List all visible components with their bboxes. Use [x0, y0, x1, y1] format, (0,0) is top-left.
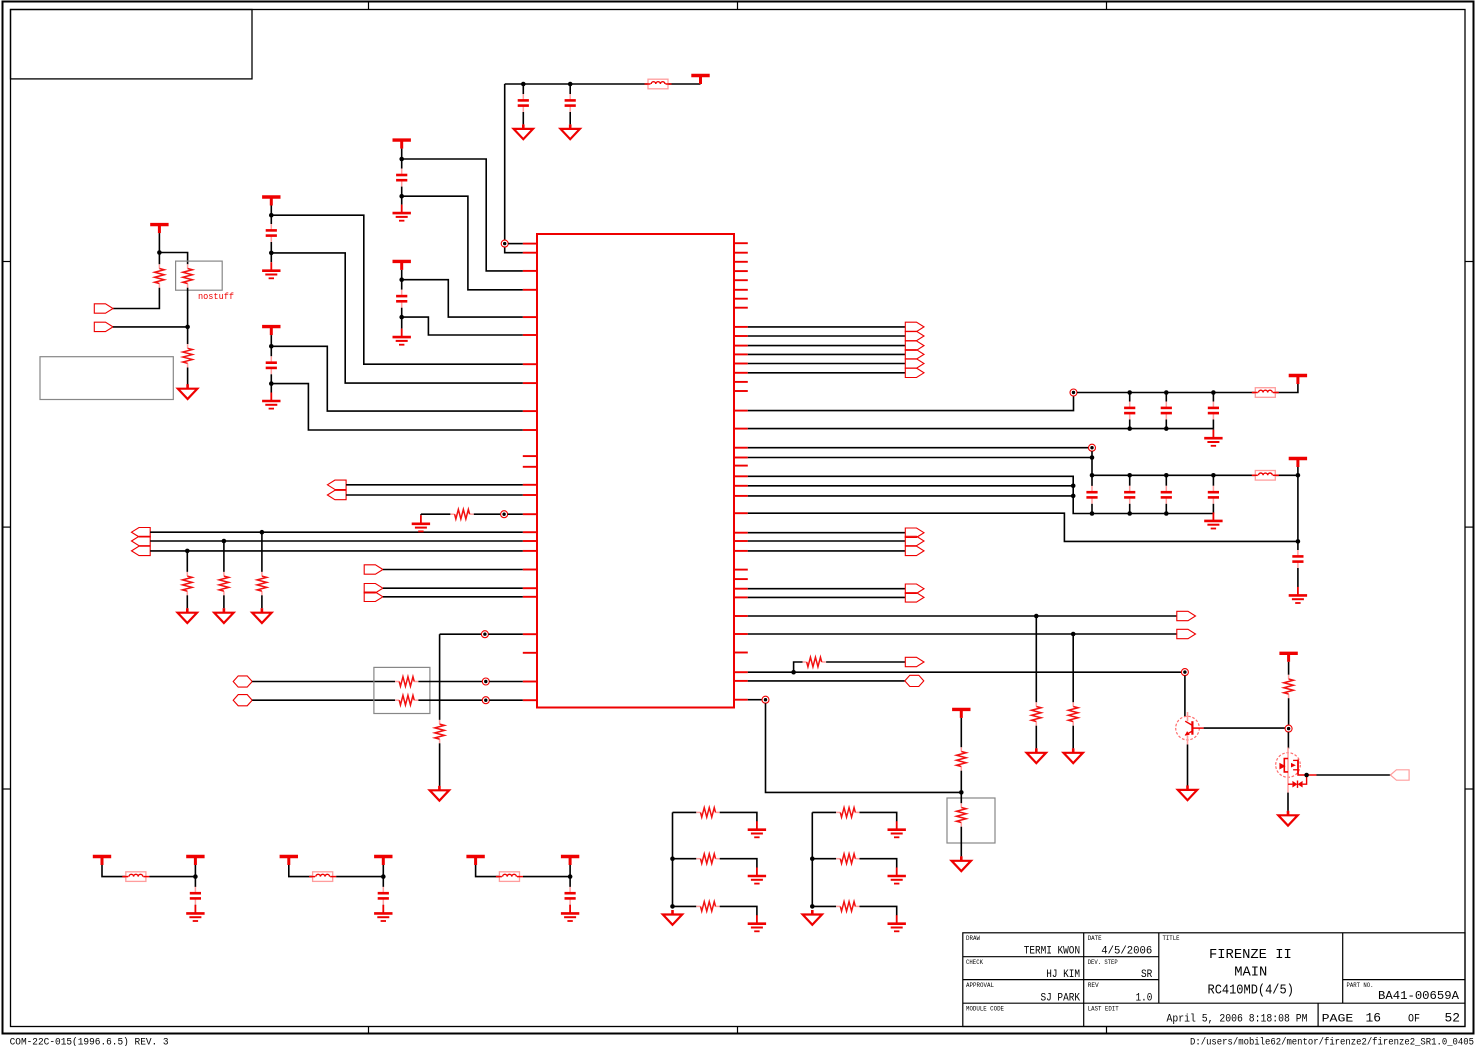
wire D stem	[270, 335, 272, 356]
wire bus1	[748, 326, 906, 328]
capacitor C17	[569, 887, 571, 893]
transistor Q2 MOSFET	[1276, 753, 1301, 778]
svg-text:BA41-00659A: BA41-00659A	[1378, 989, 1460, 1003]
Q2 source lead and body diode	[1298, 774, 1317, 776]
wire junction to R2	[159, 253, 187, 265]
svg-text:PAGE: PAGE	[1322, 1013, 1354, 1025]
wire junction2 to R3	[187, 327, 189, 344]
ground F2	[382, 905, 384, 914]
capacitor C10	[1091, 486, 1093, 492]
port hex H2	[233, 695, 252, 706]
port B2	[364, 584, 383, 593]
svg-text:DRAW: DRAW	[966, 935, 980, 942]
resistor R15	[960, 803, 962, 807]
node R8 junction	[482, 697, 489, 704]
svg-text:TITLE: TITLE	[1163, 935, 1180, 942]
wire R10 to pin	[474, 513, 501, 515]
wire F1 in	[102, 865, 126, 877]
junction dot C10 bottom	[1090, 511, 1095, 516]
wire rung R21	[812, 858, 836, 860]
wire port S588.7	[748, 588, 906, 590]
ground R10	[420, 515, 422, 524]
wire rung R19	[673, 905, 697, 907]
junction dot D1	[269, 344, 274, 349]
wire bank1 ground stem	[1212, 429, 1214, 430]
wire port B3	[383, 596, 523, 598]
wire H2 to R8	[252, 699, 395, 701]
svg-text:REV: REV	[1088, 982, 1099, 989]
node R7 junction	[482, 678, 489, 685]
wire R6 to ground	[261, 595, 263, 608]
svg-text:LAST EDIT: LAST EDIT	[1088, 1005, 1119, 1012]
wire C stem	[270, 206, 272, 225]
wire R9 to ground	[439, 743, 441, 786]
nostuff box	[176, 261, 223, 290]
ground R22	[896, 915, 898, 924]
svg-text:COM-22C-015(1996.6.5) REV. 3: COM-22C-015(1996.6.5) REV. 3	[10, 1037, 169, 1046]
frame zone ticks	[368, 2, 370, 10]
wire R10 ground branch	[420, 514, 422, 515]
wire A stem	[401, 149, 403, 169]
wire pin634 right	[748, 633, 1177, 635]
R15 gray box	[947, 798, 995, 843]
port S588.7	[905, 584, 924, 593]
resistor R19	[696, 905, 700, 907]
svg-text:HJ KIM: HJ KIM	[1046, 969, 1080, 981]
wire A2 bus	[150, 540, 523, 542]
junction dot 495	[1071, 494, 1076, 499]
wire pin457	[748, 457, 1092, 459]
wire C16 ground	[382, 904, 384, 906]
junction dot pin634	[1071, 632, 1076, 637]
capacitor C11	[1129, 475, 1131, 486]
power net D	[262, 325, 280, 328]
ground C1	[522, 124, 525, 128]
wire H1 to R7	[252, 681, 395, 683]
wire ladder vertical R17	[672, 812, 674, 906]
junction dot R15 node	[959, 790, 964, 795]
wire bus5	[748, 363, 906, 365]
port bus5	[905, 359, 924, 368]
wire pin634	[440, 633, 482, 635]
capacitor C5	[401, 290, 403, 296]
resistor R3	[187, 344, 189, 348]
junction dot F1	[193, 874, 198, 879]
resistor R18	[696, 858, 700, 860]
resistor R11	[803, 661, 807, 663]
inductor L4	[126, 872, 146, 882]
capacitor C13	[1212, 475, 1214, 486]
ground net A	[401, 205, 403, 214]
ground R15	[960, 856, 963, 861]
ground R4	[186, 608, 189, 613]
ground net D	[270, 393, 272, 402]
wire F1 out	[149, 876, 195, 878]
capacitor C12	[1165, 475, 1167, 486]
ground R19	[756, 915, 758, 924]
capacitor C9	[1212, 393, 1214, 402]
inductor L5	[313, 872, 333, 882]
port bus4	[905, 350, 924, 359]
wire B stem	[401, 270, 403, 290]
junction dot C12 bottom	[1164, 511, 1169, 516]
wire bank1 bottom rail	[748, 428, 1214, 430]
junction dot pin457	[1090, 455, 1095, 460]
junction dot power node	[1296, 539, 1301, 544]
wire R13 ground	[1072, 726, 1074, 749]
port IN2	[94, 322, 113, 331]
wire R8 to pin	[418, 699, 482, 701]
power bank2	[1289, 457, 1307, 460]
wire R11 to port	[826, 661, 905, 663]
wire F3 in	[476, 865, 500, 877]
wire Q1 base to node	[1204, 727, 1286, 729]
port bus6	[905, 368, 924, 377]
capacitor C6	[270, 356, 272, 362]
capacitor C16	[382, 887, 384, 893]
power net A	[393, 138, 411, 141]
wire node to Q2	[1287, 732, 1289, 748]
power F1 out	[186, 855, 204, 858]
wire B2 to pin	[402, 317, 523, 335]
wire bus3	[748, 345, 906, 347]
port A1	[132, 528, 151, 537]
power bank1	[1289, 374, 1307, 377]
ground F1	[194, 905, 196, 914]
svg-text:RC410MD(4/5): RC410MD(4/5)	[1208, 983, 1294, 999]
wire pin672	[748, 671, 1182, 673]
node Q1 base	[1181, 669, 1188, 676]
junction dot bank2 power	[1296, 473, 1301, 478]
wire bank2 top rail	[1092, 474, 1255, 476]
resistor R8	[395, 699, 399, 701]
junction dot C11 bottom	[1127, 511, 1132, 516]
ground ladder	[811, 910, 814, 915]
wire A1 bus	[150, 531, 523, 533]
wire R22 to ground	[860, 906, 897, 915]
port R541	[905, 536, 924, 545]
wire R12 ground	[1035, 726, 1037, 749]
junction dot ladder low	[670, 904, 675, 909]
wire pins476-496 merge	[748, 476, 1214, 513]
power VCC top	[691, 74, 709, 77]
ground R21	[896, 868, 898, 877]
wire pin448	[748, 447, 1089, 449]
ground C2	[569, 124, 572, 128]
port OUT tag	[1390, 770, 1409, 780]
wire pin513 to power node	[748, 513, 1298, 541]
node R10 junction	[501, 511, 508, 518]
resistor R13	[1072, 702, 1074, 706]
wire R3 to ground	[187, 368, 189, 385]
junction dot C1	[521, 82, 526, 87]
svg-text:DATE: DATE	[1088, 935, 1102, 942]
junction dot C8 bottom	[1164, 426, 1169, 431]
junction dot 485	[1071, 484, 1076, 489]
junction dot C net2	[269, 251, 274, 256]
resistor R17	[696, 811, 700, 813]
junction dot B1	[399, 277, 404, 282]
power R14 net	[952, 708, 970, 711]
wire Q2 source out	[1317, 774, 1391, 776]
wire rung R18	[673, 858, 697, 860]
junction dot A1	[260, 530, 265, 535]
wire rail to pin 1	[504, 84, 506, 240]
resistor R10	[450, 513, 454, 515]
wire C17 ground	[569, 904, 571, 906]
junction dot ladder low	[810, 904, 815, 909]
wire A stem lower	[401, 187, 403, 205]
resistor R22	[836, 905, 840, 907]
junction dot C7 bottom	[1127, 426, 1132, 431]
wire R7 to pin	[418, 681, 482, 683]
ground R13	[1072, 748, 1075, 753]
port IN1	[94, 304, 113, 313]
svg-text:OF: OF	[1408, 1013, 1420, 1025]
port A3	[132, 546, 151, 555]
wire port C1	[346, 484, 523, 486]
wire power to junction	[158, 233, 160, 252]
capacitor C2	[569, 84, 571, 94]
wire pin700 down	[766, 703, 962, 792]
wire Q1 emitter	[1187, 745, 1189, 786]
wire Q2 drain down	[1287, 793, 1289, 811]
wire R16 to node	[1288, 698, 1290, 725]
junction dot pin616	[1034, 614, 1039, 619]
capacitor C8	[1165, 393, 1167, 402]
svg-text:1.0: 1.0	[1136, 992, 1153, 1004]
svg-text:SR: SR	[1141, 969, 1153, 981]
svg-text:MODULE CODE: MODULE CODE	[966, 1005, 1004, 1012]
wire R14 to node	[960, 771, 962, 793]
node Q2 gate	[1285, 725, 1292, 732]
capacitor C3	[401, 169, 403, 175]
wire R5 to ground	[223, 595, 225, 608]
junction dot bank2 rail left	[1090, 473, 1095, 478]
resistor R21	[836, 858, 840, 860]
wire C2 to pin	[271, 253, 523, 383]
wire pin681	[748, 680, 905, 682]
wire R16 stem	[1288, 662, 1290, 675]
junction dot nostuff	[157, 250, 162, 255]
node bank1 junction	[1070, 389, 1077, 396]
wire bus4	[748, 353, 906, 355]
port pin634	[1177, 629, 1196, 638]
junction dot C net1	[269, 213, 274, 218]
junction dot R3 top	[185, 325, 190, 330]
wire F2 in	[289, 865, 313, 877]
junction dot ladder mid	[810, 856, 815, 861]
wire port S597.4	[748, 596, 906, 598]
wire to Q1	[1184, 676, 1186, 717]
svg-text:TERMI KWON: TERMI KWON	[1024, 946, 1080, 958]
wire R17 to ground	[720, 812, 757, 821]
wire bank1 top rail	[1077, 392, 1255, 394]
inductor L1	[648, 79, 668, 89]
resistor R6	[261, 572, 263, 576]
wire F2 out	[336, 876, 383, 878]
node pin700	[762, 696, 769, 703]
wire R14 stem	[960, 718, 962, 747]
wire F3 out	[523, 876, 570, 878]
power F2 in	[280, 855, 298, 858]
svg-text:APPROVAL: APPROVAL	[966, 982, 994, 989]
junction dot A1	[399, 157, 404, 162]
power R16 net	[1279, 652, 1297, 655]
junction dot C9 top	[1211, 390, 1216, 395]
ground C14	[1297, 587, 1299, 596]
wire R11 branch	[794, 662, 803, 672]
power net C	[262, 195, 280, 198]
ground R3	[186, 384, 189, 389]
wire F2 power stem	[382, 865, 384, 887]
wire C stem lower	[270, 242, 272, 262]
wire ladder vertical R20	[811, 812, 813, 906]
ground net B	[401, 329, 403, 338]
resistor R16	[1288, 675, 1290, 679]
inductor L2	[1255, 388, 1275, 398]
junction dot ladder mid	[670, 856, 675, 861]
wire C1 to pin	[271, 215, 523, 364]
IC U1 left pins	[523, 243, 537, 245]
power F2 out	[374, 855, 392, 858]
port hex H3	[905, 675, 924, 686]
power net B	[393, 260, 411, 263]
wire R20 to ground	[860, 812, 897, 821]
wire F3 power stem	[569, 865, 571, 887]
svg-text:PART NO.: PART NO.	[1347, 982, 1374, 989]
wire port B1	[383, 569, 523, 571]
wire D stem lower	[270, 374, 272, 392]
wire top rail VCC	[505, 83, 648, 85]
wire A1 to pin	[402, 159, 523, 271]
wire bank2 vertical	[1091, 451, 1093, 486]
ground bank2	[1212, 512, 1214, 521]
resistor R4	[186, 572, 188, 576]
svg-text:D:/users/mobile62/mentor/firen: D:/users/mobile62/mentor/firenze2/firenz…	[1190, 1037, 1474, 1046]
IC U1 body	[537, 234, 734, 708]
wire R21 to ground	[860, 859, 897, 868]
junction dot B2	[399, 315, 404, 320]
power F3 in	[466, 855, 484, 858]
ground R17	[756, 821, 758, 830]
title block grid	[963, 933, 1465, 1027]
wire A2 to pin	[402, 196, 523, 290]
junction dot F2	[381, 874, 386, 879]
power F3 out	[561, 855, 579, 858]
wire rung R20	[812, 811, 836, 813]
resistor R14	[960, 747, 962, 751]
port S597.4	[905, 593, 924, 602]
revision box top-left	[11, 10, 253, 79]
wire bank2 power stem	[1297, 467, 1299, 541]
port C1	[327, 480, 346, 489]
wire R4 to ground	[186, 595, 188, 608]
port R11	[905, 657, 924, 666]
junction dot C7 top	[1127, 390, 1132, 395]
junction dot A2	[222, 539, 227, 544]
svg-text:SJ PARK: SJ PARK	[1041, 992, 1081, 1004]
wire rung R22	[812, 905, 836, 907]
transistor Q1	[1176, 716, 1200, 740]
wire pulldown R5	[223, 541, 225, 572]
svg-text:CHECK: CHECK	[966, 959, 983, 966]
wire junction to R1	[158, 253, 160, 265]
wire F1 power stem	[194, 865, 196, 887]
wire rung R17	[673, 811, 697, 813]
wire pulldown R13	[1072, 634, 1074, 702]
node rail-pin1 junction	[501, 240, 508, 247]
port R532.7	[905, 528, 924, 537]
svg-text:MAIN: MAIN	[1234, 965, 1267, 981]
wire R19 to ground	[720, 906, 757, 915]
IC U1 right pins	[734, 242, 748, 244]
wire pulldown R6	[261, 532, 263, 572]
wire pin616	[748, 615, 1177, 617]
svg-text:FIRENZE II: FIRENZE II	[1209, 947, 1292, 963]
port bus2	[905, 331, 924, 340]
junction dot Q2 source	[1304, 773, 1309, 778]
port A2	[132, 536, 151, 545]
wire D1 to pin	[271, 346, 523, 411]
wire D2 to pin	[271, 384, 523, 430]
ground R20	[896, 821, 898, 830]
ground Q2	[1287, 811, 1290, 816]
resistor R2 nostuff	[187, 264, 189, 268]
ground R18	[756, 868, 758, 877]
svg-text:4/5/2006: 4/5/2006	[1101, 946, 1152, 958]
resistor R20	[836, 811, 840, 813]
port R550.9	[905, 546, 924, 555]
junction dot C13 top	[1211, 473, 1216, 478]
wire B stem lower	[401, 308, 403, 329]
ground net C	[270, 262, 272, 271]
inductor L6	[499, 872, 519, 882]
ground R12	[1035, 748, 1038, 753]
wire B1 to pin	[402, 280, 523, 317]
svg-text:April 5, 2006 8:18:08 PM: April 5, 2006 8:18:08 PM	[1167, 1013, 1308, 1025]
ground R9	[438, 786, 441, 791]
junction dot D2	[269, 381, 274, 386]
inductor L3	[1255, 471, 1275, 481]
wire pin411 to bank1	[748, 396, 1074, 411]
series resistor box	[374, 667, 430, 713]
junction dot C12 top	[1164, 473, 1169, 478]
junction dot C8 top	[1164, 390, 1169, 395]
junction dot A2	[399, 194, 404, 199]
capacitor C1	[522, 84, 524, 94]
capacitor C15	[194, 887, 196, 893]
wire R15 to ground	[960, 827, 962, 857]
node pin634 junction	[481, 631, 488, 638]
resistor R12	[1035, 702, 1037, 706]
port pin616	[1177, 611, 1196, 620]
wire bus2	[748, 335, 906, 337]
wire A3 bus	[150, 550, 523, 552]
wire C15 ground	[194, 904, 196, 906]
resistor R7	[395, 681, 399, 683]
wire R2 to junction2	[187, 288, 189, 327]
junction dot C2	[568, 82, 573, 87]
junction dot A3	[185, 549, 190, 554]
port bus3	[905, 341, 924, 350]
wire R18 to ground	[720, 859, 757, 868]
wire R9 vertical	[439, 634, 441, 720]
svg-text:DEV. STEP: DEV. STEP	[1088, 959, 1118, 966]
capacitor C7	[1129, 393, 1131, 402]
resistor R5	[223, 572, 225, 576]
wire port R550.9	[748, 550, 906, 552]
